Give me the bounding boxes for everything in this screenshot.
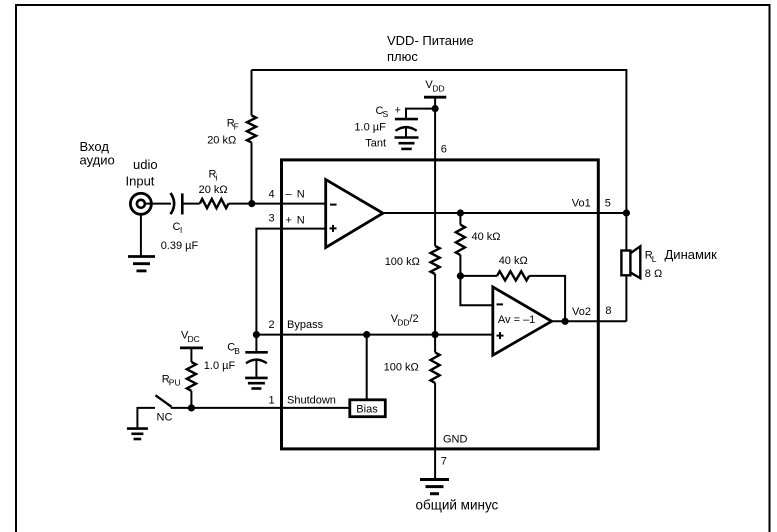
svg-text:1: 1 (269, 395, 275, 407)
svg-text:Vo2: Vo2 (572, 306, 591, 318)
svg-text:4: 4 (269, 189, 275, 201)
svg-text:Bias: Bias (356, 404, 378, 416)
svg-text:–: – (286, 189, 293, 201)
svg-text:GND: GND (443, 434, 468, 446)
svg-text:Vo1: Vo1 (572, 198, 591, 210)
svg-text:N: N (297, 215, 305, 227)
svg-text:+: + (395, 105, 401, 117)
svg-text:Динамик: Динамик (665, 247, 718, 262)
svg-text:PU: PU (169, 378, 181, 388)
svg-text:40 kΩ: 40 kΩ (472, 231, 501, 243)
svg-text:F: F (234, 122, 239, 132)
svg-text:8: 8 (605, 305, 611, 317)
svg-text:40 kΩ: 40 kΩ (499, 255, 528, 267)
svg-text:100 kΩ: 100 kΩ (385, 256, 420, 268)
svg-text:5: 5 (605, 198, 611, 210)
svg-text:0.39 µF: 0.39 µF (161, 240, 199, 252)
svg-text:NC: NC (157, 412, 173, 424)
svg-text:Tant: Tant (365, 137, 386, 149)
svg-text:I: I (180, 226, 182, 235)
svg-text:/2: /2 (410, 313, 419, 325)
svg-text:udio: udio (133, 157, 158, 172)
svg-text:i: i (216, 173, 218, 183)
svg-text:VDD- Питание: VDD- Питание (387, 33, 474, 48)
svg-text:20 kΩ: 20 kΩ (199, 184, 228, 196)
svg-text:Bypass: Bypass (287, 319, 324, 331)
svg-text:B: B (234, 346, 240, 356)
svg-text:DD: DD (397, 318, 409, 328)
svg-text:Av = –1: Av = –1 (498, 314, 535, 326)
svg-text:+: + (286, 215, 292, 227)
svg-text:S: S (383, 109, 389, 119)
svg-text:L: L (652, 254, 657, 264)
svg-text:Input: Input (126, 174, 155, 189)
svg-text:3: 3 (269, 213, 275, 225)
svg-text:7: 7 (441, 456, 447, 468)
svg-text:20 kΩ: 20 kΩ (207, 134, 236, 146)
svg-text:1.0 µF: 1.0 µF (204, 360, 236, 372)
svg-text:DD: DD (432, 84, 444, 94)
svg-text:2: 2 (269, 319, 275, 331)
svg-text:8 Ω: 8 Ω (645, 268, 662, 280)
svg-text:Shutdown: Shutdown (287, 395, 336, 407)
svg-text:6: 6 (441, 144, 447, 156)
svg-text:плюс: плюс (387, 49, 418, 64)
svg-text:DC: DC (188, 334, 200, 344)
svg-text:аудио: аудио (80, 153, 115, 168)
svg-text:N: N (297, 189, 305, 201)
svg-text:общий минус: общий минус (416, 498, 499, 513)
svg-text:100 kΩ: 100 kΩ (384, 362, 419, 374)
svg-text:1.0 µF: 1.0 µF (354, 122, 386, 134)
